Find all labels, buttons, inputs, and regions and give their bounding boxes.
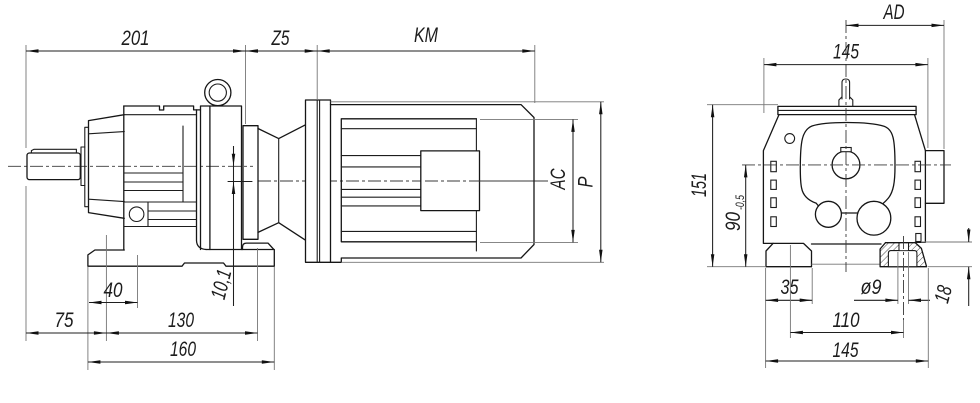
- extension P bottom: [341, 261, 604, 263]
- extension line bell/motor joint: [316, 45, 318, 99]
- gear chamber bulge face: [182, 126, 184, 202]
- extension line bolt hole 1: [105, 235, 107, 341]
- extension 18 bottom: [928, 266, 972, 268]
- housing lower rib lines: [148, 211, 197, 220]
- horizontal centerline: [742, 164, 951, 166]
- oil plug box: [124, 202, 196, 227]
- extension 35/145 left: [765, 268, 767, 368]
- housing left edge: [763, 115, 779, 244]
- bell housing top profile: [258, 125, 306, 139]
- dimension o9: [854, 299, 930, 301]
- base plane between feet: [812, 263, 881, 265]
- extension o9 right: [908, 252, 910, 304]
- extension AC bottom: [480, 241, 578, 243]
- extension 145 top right: [927, 58, 929, 148]
- extension 151 top: [707, 104, 778, 106]
- adapter foot bracket: [243, 243, 274, 249]
- lower left gear circle: [815, 201, 841, 227]
- dimension 201: [26, 50, 246, 52]
- svg-text:AC: AC: [547, 168, 570, 191]
- gearbox nose cone: [89, 115, 125, 219]
- flange joint lines: [317, 100, 319, 262]
- top cover plate: [778, 106, 916, 114]
- svg-text:Z5: Z5: [271, 27, 290, 50]
- extension 151/90 bottom: [707, 266, 766, 268]
- svg-text:ø9: ø9: [861, 276, 882, 299]
- extension 145 top left: [763, 58, 765, 113]
- svg-text:110: 110: [833, 309, 860, 332]
- rear flange plate A: [201, 106, 242, 250]
- svg-text:160: 160: [170, 338, 196, 361]
- dimension AC: [572, 119, 574, 242]
- right wall notches: [915, 161, 921, 171]
- gear cavity outline: [800, 122, 895, 213]
- extension 145 bottom right: [927, 268, 929, 368]
- extension 18 top: [921, 241, 972, 243]
- oil plug circle: [129, 207, 144, 222]
- gearbox base and feet: [88, 250, 274, 267]
- svg-text:151: 151: [688, 173, 711, 197]
- dimension Z5: [246, 50, 318, 52]
- cone inner edge lines: [89, 132, 125, 202]
- bottom right step notch: [916, 234, 921, 242]
- output shaft: [27, 153, 80, 180]
- dimension 18: [968, 228, 970, 306]
- left foot: [766, 243, 812, 266]
- dimension 110: [790, 332, 903, 334]
- dimension 145 bottom: [766, 360, 929, 362]
- motor envelope with chamfered fan end: [331, 105, 535, 263]
- bell housing bottom profile: [258, 223, 306, 241]
- dimension 145 top: [764, 64, 928, 66]
- bearing cover lip: [81, 147, 85, 186]
- extension o9 left: [897, 252, 899, 304]
- extension line fan cowl end: [534, 45, 536, 103]
- svg-text:P: P: [575, 177, 598, 188]
- fan cowl joint: [475, 119, 477, 251]
- svg-text:130: 130: [168, 309, 194, 332]
- svg-text:KM: KM: [414, 24, 438, 47]
- extension line foot left: [87, 267, 89, 370]
- extension P top: [331, 101, 605, 103]
- extension line foot right: [273, 267, 275, 370]
- svg-text:AD: AD: [882, 1, 904, 24]
- extension line gearbox rear face: [245, 45, 247, 124]
- terminal box: [421, 151, 480, 211]
- dimension 75 and 130: [26, 332, 258, 334]
- dimension 160: [88, 361, 274, 363]
- centerline gear axis: [8, 165, 253, 167]
- extension line shaft end: [25, 45, 27, 341]
- vertical centerline: [845, 20, 847, 272]
- extension AD right: [943, 20, 945, 149]
- left wall notches: [771, 161, 777, 171]
- housing bottom edge: [812, 243, 882, 245]
- lower right gear circle: [857, 201, 891, 235]
- input shaft keyway: [841, 148, 851, 152]
- extension 110 right: [903, 320, 905, 338]
- dimension KM: [317, 50, 535, 52]
- extension 110 left: [789, 245, 791, 338]
- eyebolt ring: [205, 80, 231, 106]
- extension AC top: [480, 118, 578, 120]
- centerline motor axis: [258, 180, 548, 182]
- extension 35 right: [811, 268, 813, 304]
- housing right edge: [915, 115, 926, 243]
- cover plate joint line: [778, 109, 916, 111]
- right foot sectioned: [880, 243, 927, 267]
- dimension 151: [712, 105, 714, 267]
- foot slot centerline: [903, 236, 905, 320]
- side terminal box: [925, 151, 944, 204]
- svg-text:75: 75: [55, 309, 74, 332]
- dimension 40: [89, 302, 138, 304]
- housing front wall: [123, 106, 125, 250]
- shaft key: [31, 149, 76, 153]
- motor mounting flange: [306, 100, 331, 262]
- adapter flange plate B: [243, 126, 258, 240]
- motor centerline inside box: [425, 180, 545, 182]
- stator body: [341, 119, 476, 242]
- breather plug: [839, 79, 853, 106]
- dimension AD: [846, 24, 944, 26]
- svg-text:40: 40: [104, 279, 123, 302]
- svg-text:145: 145: [833, 41, 859, 64]
- dimension 35: [766, 299, 813, 301]
- input shaft circle: [832, 151, 860, 179]
- svg-text:-0,5: -0,5: [733, 195, 747, 210]
- housing top edge with notch and right step: [124, 106, 201, 110]
- extension line 40: [137, 255, 139, 308]
- dimension 10,1 axis offset: [233, 146, 235, 306]
- svg-text:90: 90: [722, 212, 745, 231]
- dimension 90-0.5: [745, 165, 747, 267]
- housing rear wall: [197, 110, 207, 250]
- stator fins short: [341, 156, 421, 206]
- bolt slot: [899, 243, 909, 251]
- extension line bolt hole 2: [257, 248, 259, 341]
- svg-text:145: 145: [833, 339, 859, 362]
- dimension P: [600, 102, 602, 262]
- svg-text:35: 35: [781, 276, 799, 299]
- bolt recess white hat: [888, 251, 917, 267]
- svg-text:201: 201: [121, 27, 150, 50]
- housing inner top line: [124, 114, 196, 116]
- housing ribs: [124, 173, 183, 191]
- stator fins full: [341, 129, 476, 232]
- housing bolt hole top left: [785, 134, 795, 144]
- bearing cover body: [85, 127, 89, 206]
- bell housing waist: [278, 139, 280, 223]
